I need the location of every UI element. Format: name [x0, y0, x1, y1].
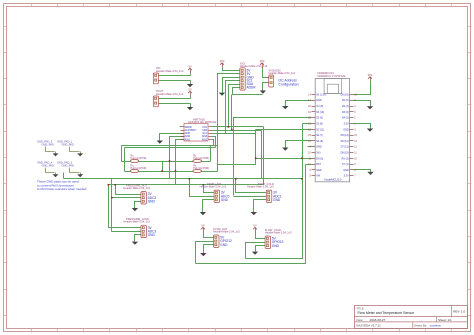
svg-text:RX (3): RX (3) — [342, 157, 349, 160]
svg-text:Header-Male-2.54_1x3: Header-Male-2.54_1x3 — [265, 230, 292, 234]
svg-text:Pull-Up(470R): Pull-Up(470R) — [131, 157, 147, 160]
svg-text:D1 (5): D1 (5) — [342, 99, 349, 102]
svg-text:TX (1): TX (1) — [342, 163, 349, 166]
svg-text:D7 (13): D7 (13) — [341, 146, 349, 149]
svg-text:AIN1: AIN1 — [185, 138, 191, 141]
svg-text:GND: GND — [316, 146, 322, 149]
svg-text:Pull-Up(470R): Pull-Up(470R) — [193, 157, 209, 160]
svg-text:GND: GND — [343, 169, 349, 172]
svg-text:GND: GND — [220, 243, 228, 247]
svg-text:SK (6): SK (6) — [316, 140, 323, 143]
svg-text:D3 (0): D3 (0) — [342, 111, 349, 114]
svg-text:S1 (8): S1 (8) — [316, 122, 323, 125]
svg-text:GND_PAD: GND_PAD — [42, 163, 54, 167]
svg-text:Date:: Date: — [357, 318, 364, 322]
svg-text:Header-Male-2.54_1x3: Header-Male-2.54_1x3 — [123, 220, 150, 224]
svg-text:Header-Male-2.54_1x3: Header-Male-2.54_1x3 — [123, 186, 150, 190]
svg-text:Pull-Up(470R): Pull-Up(470R) — [131, 167, 147, 170]
svg-text:Pull-Up(470R): Pull-Up(470R) — [193, 167, 209, 170]
svg-text:Header-Male-2.54_1x3: Header-Male-2.54_1x3 — [200, 185, 227, 189]
svg-text:3V3: 3V3 — [368, 73, 373, 77]
svg-text:GND_PAD: GND_PAD — [62, 163, 74, 167]
svg-text:REV: 1.0: REV: 1.0 — [453, 310, 465, 314]
svg-text:GND_PAD: GND_PAD — [42, 142, 54, 146]
svg-text:D6 (12): D6 (12) — [341, 140, 349, 143]
svg-text:Sheet: 1/1: Sheet: 1/1 — [438, 318, 452, 322]
svg-text:3V3: 3V3 — [260, 59, 265, 63]
svg-text:S0 (7): S0 (7) — [316, 134, 323, 137]
svg-text:Header-Male-2.54_1x2: Header-Male-2.54_1x2 — [156, 69, 184, 73]
svg-text:Drawn By:: Drawn By: — [414, 323, 427, 327]
svg-text:GND: GND — [316, 99, 322, 102]
svg-text:GND: GND — [221, 198, 229, 202]
svg-text:5V: 5V — [188, 88, 191, 92]
svg-text:D5 (14): D5 (14) — [341, 134, 349, 137]
svg-text:GND: GND — [148, 233, 156, 237]
svg-text:ADS1115 I2C MODULE: ADS1115 I2C MODULE — [188, 120, 216, 124]
svg-text:ADDR: ADDR — [247, 86, 257, 90]
svg-text:GND_PAD: GND_PAD — [62, 142, 74, 146]
svg-text:3.3V: 3.3V — [344, 175, 349, 178]
svg-text:Configuration: Configuration — [278, 83, 298, 87]
svg-text:3V3: 3V3 — [220, 59, 225, 63]
svg-text:5V: 5V — [253, 224, 256, 228]
svg-text:wozianis: wozianis — [430, 323, 442, 327]
svg-text:GND: GND — [343, 128, 349, 131]
svg-text:D0 (16): D0 (16) — [341, 93, 349, 96]
svg-text:VIN: VIN — [316, 175, 320, 178]
svg-text:5V: 5V — [188, 65, 191, 69]
svg-text:RST: RST — [316, 163, 321, 166]
svg-text:5V: 5V — [201, 224, 204, 228]
svg-text:D2 (4): D2 (4) — [342, 105, 349, 108]
svg-text:to Pull Down resistors when ne: to Pull Down resistors when needed — [37, 187, 87, 191]
svg-text:S2 (9): S2 (9) — [316, 117, 323, 120]
svg-text:TITLE:: TITLE: — [357, 306, 365, 310]
svg-text:GND: GND — [272, 244, 280, 248]
svg-text:3V3: 3V3 — [316, 152, 321, 155]
svg-text:GND: GND — [148, 199, 156, 203]
svg-text:GND: GND — [316, 169, 322, 172]
svg-text:D8 (15): D8 (15) — [341, 152, 349, 155]
svg-text:Header-Male-2.54_1x2: Header-Male-2.54_1x2 — [156, 92, 184, 96]
svg-text:3.3V: 3.3V — [344, 122, 349, 125]
svg-text:NODEMCU V1 ESP12E: NODEMCU V1 ESP12E — [318, 74, 346, 78]
svg-text:NodeMCU1.0: NodeMCU1.0 — [324, 178, 341, 182]
svg-text:Flow Meter and Temperature Sen: Flow Meter and Temperature Sensor — [358, 311, 416, 315]
svg-text:GND: GND — [273, 198, 281, 202]
svg-text:A0 (1.3V): A0 (1.3V) — [316, 93, 326, 96]
svg-text:AIN2: AIN2 — [202, 138, 208, 141]
svg-text:S3 (10): S3 (10) — [316, 111, 324, 114]
svg-text:SC (11): SC (11) — [316, 128, 324, 131]
svg-text:EN (3): EN (3) — [316, 157, 323, 160]
svg-text:Header-Male-2.54_1x3: Header-Male-2.54_1x3 — [213, 229, 240, 233]
svg-text:Header-Male-2.54_1x2: Header-Male-2.54_1x2 — [269, 71, 296, 75]
svg-text:Header-Male-2.54_1x3: Header-Male-2.54_1x3 — [247, 185, 274, 189]
svg-text:EASYEDA V5.7.22: EASYEDA V5.7.22 — [357, 323, 382, 327]
svg-text:VU (5): VU (5) — [316, 105, 323, 108]
svg-text:2018-08-27: 2018-08-27 — [370, 318, 386, 322]
svg-text:D4 (2): D4 (2) — [342, 117, 349, 120]
